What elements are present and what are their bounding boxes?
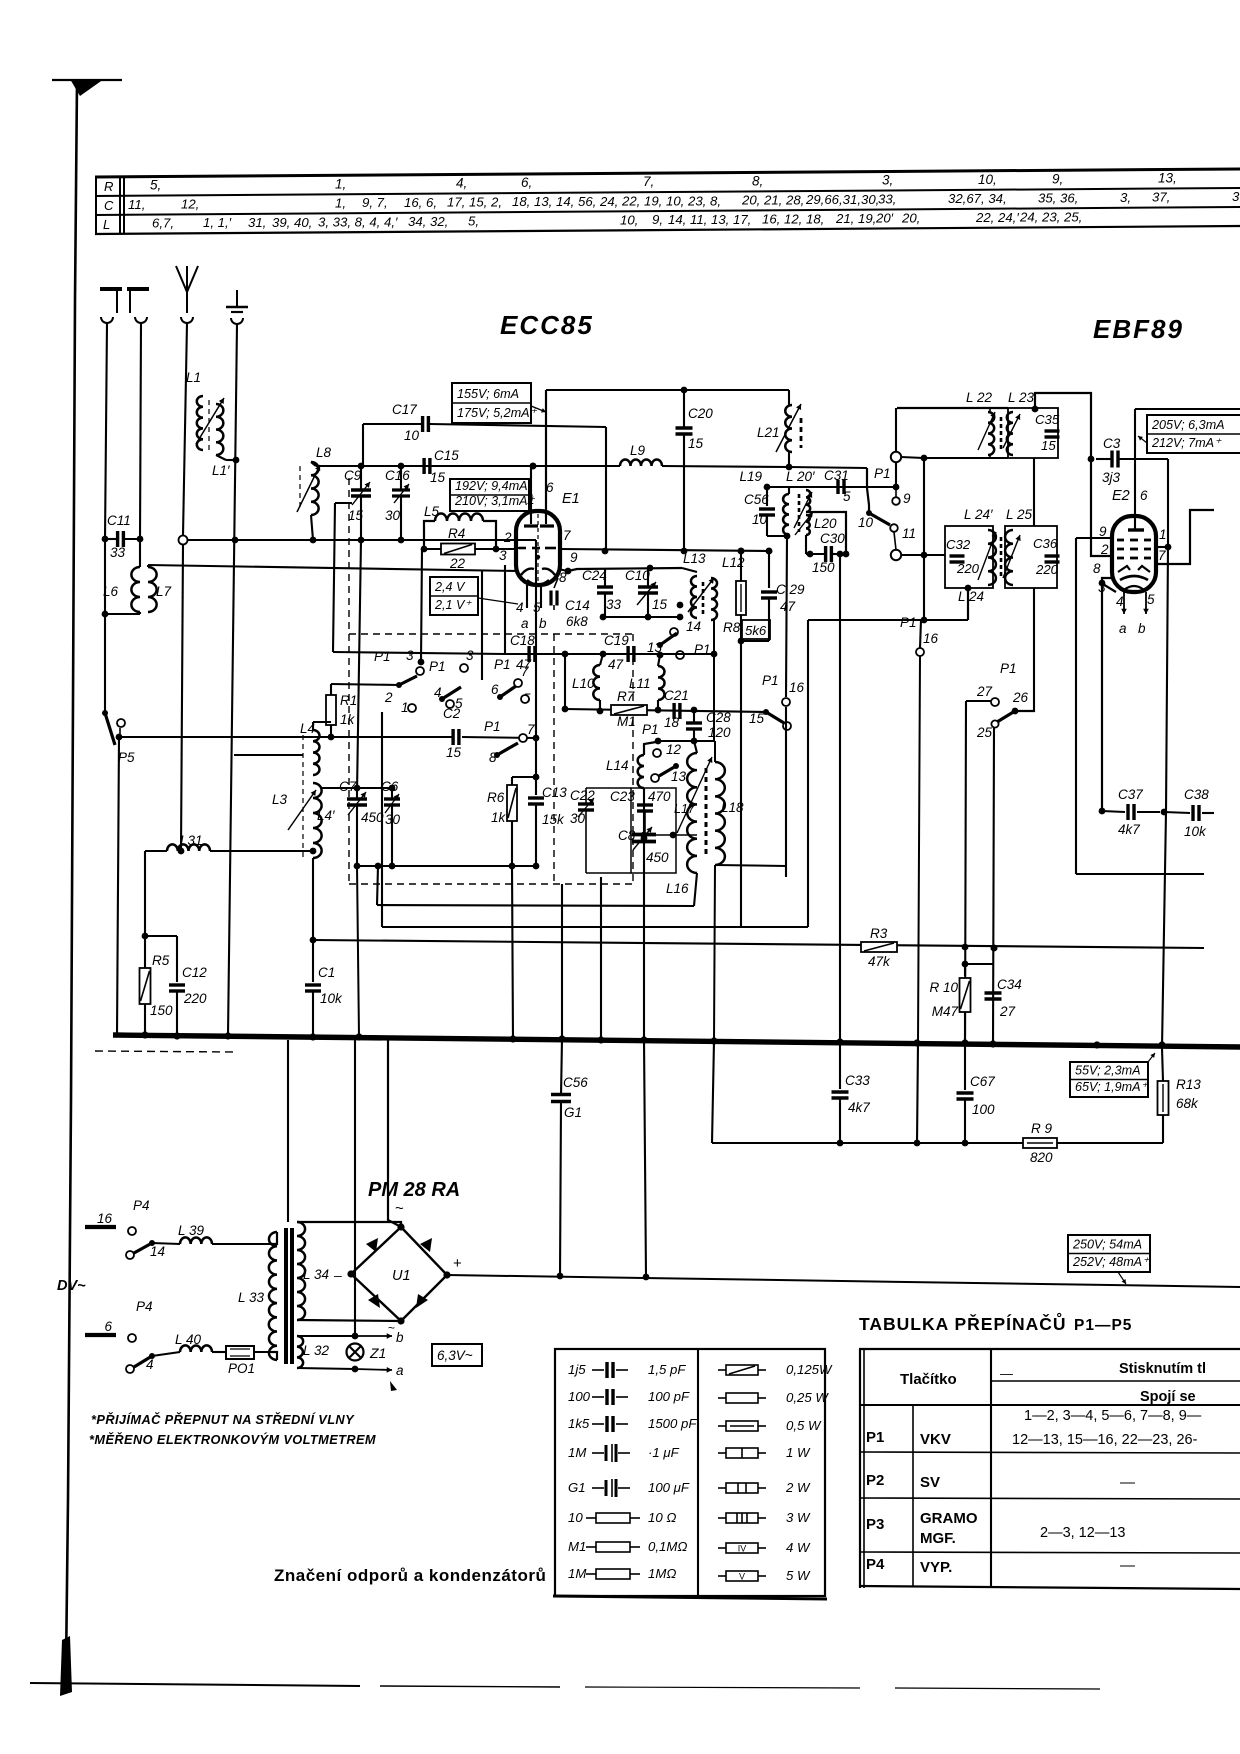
svg-text:26: 26 — [1012, 690, 1029, 705]
svg-text:7: 7 — [563, 528, 571, 543]
svg-text:L 34: L 34 — [303, 1267, 329, 1282]
svg-text:1M: 1M — [568, 1566, 586, 1581]
svg-text:R: R — [104, 179, 113, 194]
wire x1034 link — [1033, 458, 1035, 526]
svg-text:252V; 48mA⁺: 252V; 48mA⁺ — [1072, 1255, 1150, 1269]
svg-text:P1: P1 — [762, 673, 779, 688]
svg-text:11: 11 — [902, 526, 916, 541]
contact 9 — [892, 497, 900, 505]
svg-text:1M: 1M — [568, 1445, 586, 1460]
svg-text:C 29: C 29 — [776, 582, 805, 597]
svg-text:C14: C14 — [565, 598, 590, 613]
svg-text:6: 6 — [546, 480, 554, 495]
wire contact12 row — [658, 740, 694, 742]
svg-text:12: 12 — [666, 742, 682, 757]
svg-text:R3: R3 — [870, 926, 888, 941]
svg-text:29,66,31,30,: 29,66,31,30, — [805, 192, 879, 207]
svg-text:C31: C31 — [824, 468, 849, 483]
svg-text:37,: 37, — [1152, 190, 1170, 205]
svg-text:22, 19, 10, 23, 8,: 22, 19, 10, 23, 8, — [621, 193, 721, 208]
wire y906 row — [377, 905, 694, 906]
svg-text:25: 25 — [976, 725, 993, 740]
svg-text:—: — — [999, 1366, 1014, 1381]
svg-text:39, 40,: 39, 40, — [272, 215, 312, 230]
svg-text:C2: C2 — [443, 706, 461, 721]
svg-text:4: 4 — [434, 685, 442, 700]
capacitor C1 — [310, 937, 317, 944]
wire contact1 down x382 — [381, 712, 383, 927]
bridge rectifier U1 — [297, 1222, 401, 1227]
svg-text:P5: P5 — [118, 750, 135, 765]
wire y874 row — [1076, 873, 1204, 875]
tank box L23 C35 — [1008, 408, 1058, 458]
svg-text:3: 3 — [1232, 189, 1240, 204]
legend wattage 0,25W — [718, 1397, 726, 1399]
wire y540 to tuner — [188, 539, 536, 541]
wire contact16 down — [785, 707, 787, 877]
top table frame — [95, 169, 1240, 177]
wire C28 to oscillator coils — [693, 740, 715, 742]
svg-text:P2: P2 — [866, 1472, 884, 1489]
wire C3 to pin1 column — [1167, 459, 1169, 547]
wire AVC long row y941 — [313, 940, 1204, 948]
svg-text:10k: 10k — [1184, 824, 1207, 839]
tank box C32 — [945, 526, 993, 588]
dashed mark below bus — [95, 1051, 235, 1052]
heater output b — [297, 1335, 355, 1337]
svg-text:68k: 68k — [1176, 1096, 1199, 1111]
wire x355 bus to lamp — [354, 1040, 356, 1336]
svg-text:5 W: 5 W — [786, 1568, 811, 1583]
capacitor C3 — [1110, 451, 1113, 468]
wire y487 row C31 — [767, 486, 896, 488]
svg-text:L16: L16 — [666, 881, 689, 896]
svg-text:34, 32,: 34, 32, — [408, 214, 448, 229]
svg-text:1: 1 — [527, 492, 535, 507]
svg-text:15: 15 — [348, 508, 364, 523]
switch contact 14 13 P1 — [670, 628, 678, 636]
svg-text:15: 15 — [1041, 438, 1056, 453]
tank L20 C30 — [806, 512, 846, 554]
svg-text:L14: L14 — [606, 758, 629, 773]
svg-text:150: 150 — [150, 1003, 173, 1018]
svg-text:6: 6 — [491, 682, 499, 697]
wire pin3 branch to R7 row — [564, 654, 566, 709]
voltage box 155V — [452, 383, 531, 423]
svg-text:212V; 7mA⁺: 212V; 7mA⁺ — [1151, 436, 1222, 450]
svg-text:M1: M1 — [568, 1539, 586, 1554]
svg-text:1 W: 1 W — [786, 1445, 811, 1460]
legend wattage 0,5W — [718, 1425, 726, 1427]
wire x741 down — [740, 641, 742, 927]
wire ground branch to L3 — [234, 754, 303, 756]
svg-text:100: 100 — [972, 1102, 995, 1117]
wire L4 top to C7 C6 — [320, 787, 392, 789]
wire C2 branch down — [535, 738, 537, 795]
svg-text:5: 5 — [533, 600, 541, 615]
svg-text:R5: R5 — [152, 953, 170, 968]
switch lever 15 — [766, 712, 784, 723]
svg-text:10: 10 — [752, 512, 768, 527]
svg-text:33: 33 — [110, 545, 126, 560]
node L24 tap — [965, 585, 972, 592]
wire L18 base to bus — [714, 865, 715, 1041]
voltage box 205V — [1147, 415, 1240, 453]
capacitor C31 — [836, 480, 839, 494]
ground bus — [113, 1035, 1240, 1047]
svg-text:15: 15 — [430, 470, 446, 485]
svg-text:20,: 20, — [901, 210, 920, 225]
capacitor C29 — [766, 548, 773, 555]
wire C17 right down to pin7 row — [605, 427, 607, 551]
svg-text:C16: C16 — [385, 468, 410, 483]
antenna symbol — [176, 266, 187, 292]
svg-text:7: 7 — [527, 722, 535, 737]
svg-text:18, 13, 14, 56, 24,: 18, 13, 14, 56, 24, — [512, 194, 618, 209]
svg-text:192V; 9,4mA: 192V; 9,4mA — [455, 479, 528, 493]
wire x1076 column down — [1075, 538, 1077, 874]
page bottom edge line — [30, 1683, 360, 1686]
svg-text:13: 13 — [671, 769, 687, 784]
wire x644 column — [643, 838, 645, 1040]
svg-text:55V; 2,3mA: 55V; 2,3mA — [1075, 1064, 1141, 1078]
svg-text:5,: 5, — [150, 178, 161, 193]
svg-text:16, 6,: 16, 6, — [404, 195, 437, 210]
svg-text:L13: L13 — [683, 551, 706, 566]
wire P5 output down to bus — [119, 728, 121, 737]
ground symbol — [236, 290, 238, 307]
svg-text:P1: P1 — [1000, 661, 1017, 676]
svg-text:3j3: 3j3 — [1102, 470, 1121, 485]
svg-text:*PŘIJÍMAČ PŘEPNUT NA STŘEDNÍ V: *PŘIJÍMAČ PŘEPNUT NA STŘEDNÍ VLNY — [91, 1412, 355, 1427]
wire 26 up link — [1015, 710, 1034, 711]
svg-text:1,: 1, — [335, 176, 346, 191]
heater output a — [297, 1368, 355, 1369]
svg-text:220: 220 — [956, 561, 980, 576]
wire antenna3 lower segment — [181, 545, 183, 851]
svg-text:L 24: L 24 — [958, 589, 984, 604]
svg-text:3: 3 — [466, 648, 474, 663]
svg-text:15: 15 — [446, 745, 462, 760]
svg-text:C56: C56 — [563, 1075, 588, 1090]
svg-text:450: 450 — [361, 810, 384, 825]
wire x562 column — [561, 884, 563, 1039]
svg-text:C9: C9 — [344, 468, 362, 483]
tube E1 heater leads — [526, 585, 528, 608]
svg-text:C36: C36 — [1033, 536, 1058, 551]
svg-text:10,: 10, — [978, 172, 997, 187]
svg-text:15: 15 — [652, 597, 668, 612]
svg-text:C20: C20 — [688, 406, 713, 421]
svg-text:9: 9 — [570, 550, 578, 565]
wire B+ rail top right — [1135, 408, 1240, 410]
wire pin1 row — [1156, 546, 1168, 548]
svg-text:5: 5 — [1147, 592, 1155, 607]
wire C2 row y737 — [119, 736, 453, 738]
wire x646 below bus — [644, 1040, 646, 1277]
svg-text:1—2, 3—4, 5—6, 7—8, 9—: 1—2, 3—4, 5—6, 7—8, 9— — [1024, 1408, 1202, 1424]
svg-text:15: 15 — [749, 711, 765, 726]
svg-text:G1: G1 — [564, 1105, 582, 1120]
svg-text:P1: P1 — [374, 649, 391, 664]
wire pin3 down — [504, 565, 506, 654]
capacitor C11 — [102, 536, 109, 543]
resistor R7 — [611, 705, 647, 715]
resistor R4 — [421, 546, 428, 553]
svg-text:L3: L3 — [272, 792, 288, 807]
svg-text:C32: C32 — [946, 537, 971, 552]
tube E1 axis dashed — [537, 514, 539, 582]
wire pin2 to C3 — [1091, 459, 1112, 556]
svg-text:30: 30 — [385, 812, 401, 827]
tank box L25 C36 — [1005, 526, 1057, 588]
contact 11 — [890, 524, 898, 532]
svg-text:0,1MΩ: 0,1MΩ — [648, 1539, 687, 1554]
svg-text:2: 2 — [503, 530, 512, 545]
svg-text:155V; 6mA: 155V; 6mA — [457, 387, 519, 401]
svg-text:C15: C15 — [434, 448, 459, 463]
svg-text:Značení odporů a kondenzátorů: Značení odporů a kondenzátorů — [274, 1566, 546, 1585]
svg-text:10: 10 — [404, 428, 420, 443]
wire x924 column — [923, 458, 925, 620]
svg-text:PO1: PO1 — [228, 1361, 255, 1376]
svg-text:175V; 5,2mA⁺: 175V; 5,2mA⁺ — [457, 406, 538, 420]
svg-text:2 W: 2 W — [785, 1480, 811, 1495]
svg-text:120: 120 — [708, 725, 731, 740]
svg-text:DV~: DV~ — [57, 1278, 86, 1294]
svg-text:C30: C30 — [820, 531, 845, 546]
svg-text:9, 7,: 9, 7, — [362, 195, 388, 210]
tube E1 anode electrodes — [530, 466, 532, 524]
legend wattage 0,125W — [718, 1369, 726, 1371]
svg-text:21, 19,: 21, 19, — [835, 211, 876, 226]
wire C15 row y466 — [316, 465, 533, 467]
svg-text:2,4 V: 2,4 V — [434, 580, 466, 594]
svg-text:10,: 10, — [620, 212, 638, 227]
svg-text:5k6: 5k6 — [745, 623, 767, 638]
svg-text:13,: 13, — [1158, 171, 1177, 186]
svg-text:14: 14 — [686, 619, 701, 634]
svg-text:L: L — [103, 217, 110, 232]
svg-text:6: 6 — [1140, 488, 1148, 503]
svg-text:L 33: L 33 — [238, 1290, 265, 1305]
capacitor C19 — [626, 646, 629, 662]
svg-text:b: b — [396, 1330, 404, 1345]
resistor R6 — [511, 777, 513, 785]
wire pin7 row y551 — [560, 549, 769, 551]
svg-text:2: 2 — [384, 690, 393, 705]
svg-text:27: 27 — [999, 1004, 1016, 1019]
svg-text:Z1: Z1 — [369, 1345, 386, 1361]
svg-text:16: 16 — [923, 631, 939, 646]
svg-text:L 25′: L 25′ — [1006, 507, 1035, 522]
svg-text:GRAMO: GRAMO — [920, 1510, 978, 1527]
capacitor C14 — [554, 578, 558, 588]
svg-text:C33: C33 — [845, 1073, 870, 1088]
wire y458 row — [924, 457, 1008, 459]
svg-text:C21: C21 — [664, 688, 689, 703]
svg-text:14, 11, 13, 17,: 14, 11, 13, 17, — [668, 212, 751, 227]
capacitor C13 — [528, 796, 544, 799]
svg-text:L21: L21 — [757, 425, 780, 440]
svg-text:450: 450 — [646, 850, 669, 865]
svg-text:L 32: L 32 — [303, 1343, 330, 1358]
svg-text:Stisknutím tl: Stisknutím tl — [1119, 1361, 1206, 1377]
legend wattage 4W — [718, 1547, 726, 1549]
capacitor C15 — [422, 458, 425, 474]
wire x917 column — [918, 656, 920, 1043]
wire x966 column — [965, 701, 966, 1047]
svg-text:47: 47 — [780, 599, 796, 614]
svg-text:10: 10 — [858, 515, 874, 530]
wire corner x867 to lever — [867, 468, 869, 512]
svg-text:16: 16 — [789, 680, 805, 695]
svg-text:L 39: L 39 — [178, 1223, 205, 1238]
svg-text:1j5: 1j5 — [568, 1362, 586, 1377]
resistor R3 — [861, 942, 897, 952]
svg-text:14: 14 — [150, 1244, 165, 1259]
capacitor C17 — [362, 424, 364, 466]
svg-text:4k7: 4k7 — [1118, 822, 1140, 837]
wire x1034 down to P1 26 — [1033, 588, 1035, 710]
svg-text:L4′: L4′ — [317, 808, 335, 823]
svg-text:6,: 6, — [521, 175, 532, 190]
tube E2 envelope — [1112, 516, 1156, 592]
svg-text:470: 470 — [648, 789, 671, 804]
wire L31 left to R5 — [144, 851, 146, 936]
lamp Z1 — [347, 1344, 364, 1361]
svg-text:6: 6 — [104, 1319, 112, 1334]
svg-text:16: 16 — [97, 1211, 113, 1226]
svg-text:C10: C10 — [625, 568, 650, 583]
resistor R9 — [1023, 1138, 1057, 1148]
svg-text:P1: P1 — [866, 1429, 884, 1446]
legend box frame — [555, 1349, 825, 1596]
wire x840 column — [839, 554, 841, 1042]
svg-text:1: 1 — [1159, 527, 1167, 542]
wire pin9 to C24 — [558, 569, 568, 571]
svg-text:31,: 31, — [248, 215, 266, 230]
svg-text:C18: C18 — [510, 633, 535, 648]
svg-text:9: 9 — [1099, 524, 1107, 539]
svg-text:E1: E1 — [562, 491, 580, 507]
svg-text:2,1 V⁺: 2,1 V⁺ — [434, 598, 472, 612]
svg-text:5: 5 — [843, 489, 851, 504]
voltage box 192V — [450, 479, 529, 511]
svg-text:L19: L19 — [739, 469, 762, 484]
tube E2 heater leads with arrows — [1123, 592, 1125, 614]
wire x536 riser — [535, 540, 537, 740]
svg-text:L7: L7 — [156, 584, 172, 599]
svg-text:L9: L9 — [630, 443, 646, 458]
svg-text:0,125W: 0,125W — [786, 1362, 833, 1377]
voltage box 6.3V — [432, 1344, 482, 1366]
tube E1 cathode arcs — [521, 569, 534, 575]
tube E2 grid dashes — [1117, 539, 1124, 542]
tube E2 top diode bar — [1128, 528, 1144, 531]
terminal circle bottom FM out — [891, 550, 901, 560]
svg-text:5,: 5, — [468, 213, 479, 228]
svg-text:P1—P5: P1—P5 — [1074, 1317, 1132, 1334]
svg-text:C13: C13 — [542, 785, 567, 800]
svg-text:L 23: L 23 — [1008, 390, 1035, 405]
svg-text:220: 220 — [183, 991, 207, 1006]
wire L9 row right segment — [789, 467, 867, 468]
svg-text:10: 10 — [568, 1510, 583, 1525]
svg-text:C35: C35 — [1035, 412, 1060, 427]
node antenna3 terminal — [179, 536, 188, 545]
wire C7 bottom to bus — [357, 866, 359, 1037]
svg-text:b: b — [539, 616, 547, 631]
svg-text:32,67, 34,: 32,67, 34, — [948, 191, 1007, 206]
svg-text:30: 30 — [385, 508, 401, 523]
wire AVC row y654 — [333, 652, 505, 654]
capacitor C18 — [527, 646, 530, 662]
svg-text:1MΩ: 1MΩ — [648, 1566, 676, 1581]
wire top feed L22 box — [897, 407, 1008, 409]
wire contact16 up to L20 tank — [786, 536, 787, 697]
wire antenna2 down — [140, 323, 141, 539]
wire x378 link — [377, 866, 378, 905]
wire R6 bottom to bus — [512, 866, 513, 1042]
svg-text:22: 22 — [449, 556, 466, 571]
svg-text:17, 15, 2,: 17, 15, 2, — [447, 195, 502, 210]
wire contact3 column x421 — [421, 549, 422, 662]
mark arrow small — [390, 1381, 397, 1391]
svg-text:~: ~ — [395, 1200, 404, 1217]
svg-text:E2: E2 — [1112, 488, 1130, 504]
wire L23 top to C3 row — [1035, 393, 1091, 459]
antenna socket 1 symbol — [100, 287, 122, 291]
svg-text:U1: U1 — [392, 1268, 411, 1284]
svg-text:12—13, 15—16, 22—23, 26-: 12—13, 15—16, 22—23, 26- — [1012, 1432, 1198, 1448]
svg-text:P1: P1 — [484, 719, 501, 734]
wire x712 below bus — [712, 1041, 714, 1143]
svg-text:C23: C23 — [610, 789, 635, 804]
wire R7 row y711 — [565, 709, 766, 712]
voltage box 250V — [1068, 1235, 1150, 1272]
svg-text:30: 30 — [570, 811, 586, 826]
svg-text:C6: C6 — [381, 779, 399, 794]
wire L18 bottom loop — [715, 865, 786, 866]
wire y866 row — [357, 865, 536, 867]
svg-text:4k7: 4k7 — [848, 1100, 870, 1115]
wire L24 tap down — [967, 588, 969, 620]
svg-text:P1: P1 — [429, 659, 446, 674]
svg-text:33: 33 — [606, 597, 622, 612]
svg-text:R1: R1 — [340, 693, 357, 708]
svg-text:27: 27 — [976, 684, 993, 699]
legend wattage 3W — [718, 1517, 726, 1519]
bridge diode 3 — [368, 1294, 380, 1308]
wire contact column x482 — [481, 571, 483, 680]
svg-text:4: 4 — [146, 1357, 154, 1372]
svg-text:G1: G1 — [568, 1480, 586, 1495]
svg-text:–: – — [333, 1267, 342, 1283]
svg-text:C: C — [104, 198, 114, 213]
svg-text:24, 23, 25,: 24, 23, 25, — [1019, 210, 1082, 225]
svg-text:2: 2 — [1100, 542, 1109, 557]
svg-text:7: 7 — [521, 664, 529, 679]
svg-text:L1: L1 — [186, 370, 201, 385]
bridge diode 2 — [420, 1238, 432, 1252]
svg-text:P1: P1 — [494, 657, 511, 672]
voltage box 2,4V — [430, 577, 478, 615]
svg-text:P4: P4 — [866, 1556, 885, 1573]
svg-text:R4: R4 — [448, 526, 465, 541]
wire pin7 out — [1156, 510, 1214, 564]
capacitor C28 — [686, 721, 702, 724]
